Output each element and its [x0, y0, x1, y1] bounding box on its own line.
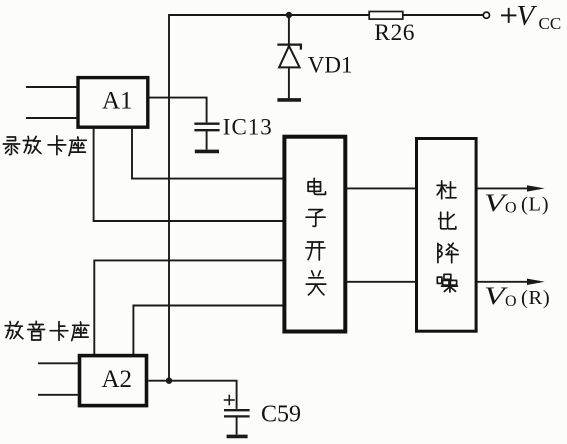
svg-text:R26: R26: [374, 20, 415, 46]
svg-text:CC: CC: [539, 14, 562, 33]
svg-text:V: V: [517, 0, 538, 32]
svg-text:(L): (L): [521, 194, 549, 216]
svg-text:A2: A2: [102, 366, 133, 393]
svg-text:VD1: VD1: [308, 53, 353, 78]
svg-text:O: O: [505, 200, 517, 217]
svg-text:O: O: [505, 293, 517, 310]
svg-text:IC13: IC13: [223, 115, 273, 140]
svg-text:C59: C59: [261, 402, 301, 428]
svg-text:(R): (R): [521, 287, 550, 309]
svg-text:A1: A1: [102, 88, 133, 115]
